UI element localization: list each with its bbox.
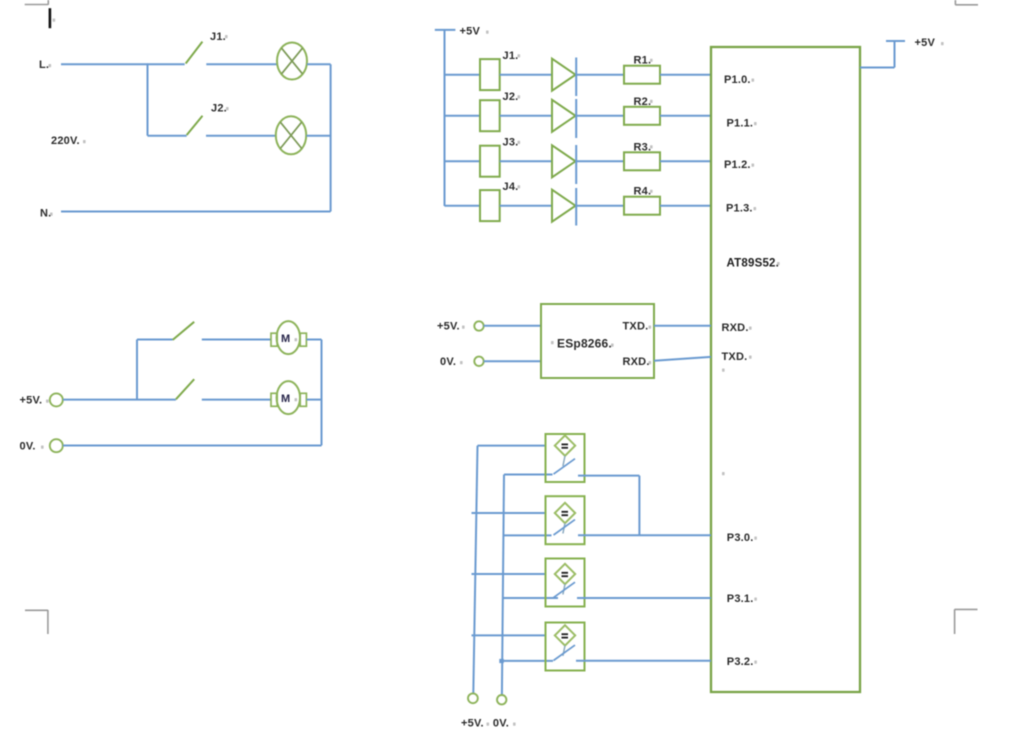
svg-text:RXD.: RXD. (623, 356, 650, 368)
svg-text:RXD.: RXD. (722, 322, 749, 334)
svg-text:L.: L. (39, 59, 49, 71)
svg-text:N.: N. (40, 208, 51, 220)
svg-text:P1.1.: P1.1. (727, 118, 754, 130)
svg-text:J2.: J2. (211, 103, 227, 115)
svg-text:R4.: R4. (634, 186, 652, 198)
svg-text:J3.: J3. (503, 137, 519, 149)
svg-text:J1.: J1. (503, 50, 519, 62)
svg-text:P3.0.: P3.0. (727, 532, 754, 544)
svg-text:P1.0.: P1.0. (724, 74, 751, 86)
svg-text:ESp8266.: ESp8266. (557, 337, 612, 351)
svg-text:+5V: +5V (915, 37, 936, 49)
svg-text:P3.2.: P3.2. (727, 656, 754, 668)
svg-text:0V.: 0V. (440, 356, 456, 368)
svg-text:P1.2.: P1.2. (724, 159, 751, 171)
svg-text:+5V: +5V (460, 26, 481, 38)
svg-text:220V.: 220V. (51, 135, 80, 147)
svg-text:R3.: R3. (634, 141, 652, 153)
svg-text:+5V.: +5V. (20, 395, 43, 407)
svg-text:M: M (281, 393, 290, 405)
svg-text:+5V.: +5V. (461, 718, 484, 730)
svg-text:TXD.: TXD. (623, 321, 649, 333)
svg-text:TXD.: TXD. (722, 351, 748, 363)
svg-text:AT89S52.: AT89S52. (727, 258, 780, 270)
svg-text:J2.: J2. (503, 91, 519, 103)
svg-text:R2.: R2. (634, 96, 652, 108)
svg-text:P1.3.: P1.3. (726, 203, 753, 215)
svg-text:J1.: J1. (210, 31, 226, 43)
svg-text:+5V.: +5V. (437, 321, 460, 333)
svg-text:0V.: 0V. (493, 718, 509, 730)
svg-text:P3.1.: P3.1. (727, 593, 754, 605)
svg-text:R1.: R1. (634, 55, 652, 67)
svg-text:M: M (281, 333, 290, 345)
svg-text:J4.: J4. (503, 181, 519, 193)
svg-text:0V.: 0V. (20, 441, 36, 453)
